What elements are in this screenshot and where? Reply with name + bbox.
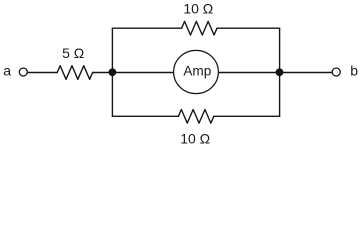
terminal b [332,68,340,76]
wire node 2 to b [280,72,332,74]
svg-text:10 Ω: 10 Ω [180,131,210,147]
svg-text:b: b [350,63,358,79]
svg-text:10 Ω: 10 Ω [183,1,213,17]
junction node 2 [276,68,284,76]
wire top rail left segment [112,27,181,29]
wire node 1 to ammeter [112,72,176,74]
svg-text:5 Ω: 5 Ω [62,45,84,61]
svg-text:Amp: Amp [183,64,211,79]
wire resistor R1 to node 1 [93,72,113,74]
junction node 1 [109,68,117,76]
ammeter U1 [174,50,219,93]
resistor R2 10 ohm (top) [182,21,217,35]
wire right vertical (node 2 to top and bottom rails) [279,28,281,116]
terminal a [19,68,27,76]
resistor R1 5 ohm [57,66,92,80]
wire bottom rail right segment [214,115,280,117]
resistor R3 10 ohm (bottom) [178,110,213,124]
wire left vertical (node 1 to top and bottom rails) [111,28,113,116]
wire top rail right segment [217,27,280,29]
wire ammeter to node 2 [216,72,280,74]
svg-text:a: a [3,62,11,78]
wire a to resistor R1 [28,72,58,74]
wire bottom rail left segment [112,115,178,117]
